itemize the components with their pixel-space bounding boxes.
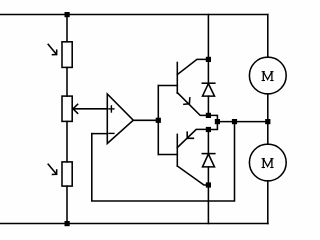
resistor R1 (variable, arrow)	[62, 42, 72, 68]
wire Q2 collector down to bottom rail	[207, 185, 209, 224]
wire top supply rail	[0, 14, 268, 16]
node collector Q2 / D2 anode	[206, 182, 211, 187]
diode D1	[202, 83, 215, 115]
motor M1	[249, 57, 286, 94]
node B output tee	[215, 119, 220, 124]
wire op-amp inverting input	[92, 133, 108, 135]
wire output split vertical	[157, 86, 159, 155]
transistor Q1 emitter with arrow	[177, 93, 208, 116]
wire feedback: minus input down, across, up to node C	[92, 122, 235, 201]
node op-amp output junction	[156, 118, 161, 123]
node A emitter Q1 / D1 anode	[206, 113, 211, 118]
wire top rail down to Q1 collector and diode D1	[207, 15, 209, 84]
wire top rail corner down to motor M1	[267, 15, 269, 58]
wire output to motors	[217, 121, 267, 123]
wire op-amp output	[133, 119, 158, 121]
transistor Q1 (NPN) base bar	[176, 63, 178, 94]
node collector Q1 / top rail drop	[206, 57, 211, 62]
node bottom rail / resistor chain junction	[65, 221, 70, 226]
resistor R3 (variable, arrow)	[62, 162, 72, 186]
arrow for R1	[48, 44, 57, 54]
potentiometer R2	[62, 96, 72, 121]
wire base of Q1	[158, 85, 177, 87]
op-amp U1	[107, 94, 133, 144]
wire base of Q2	[158, 154, 177, 156]
node top rail / resistor chain junction	[65, 12, 70, 17]
arrow for R3	[48, 164, 57, 174]
node D emitter Q2 / D2 cathode	[206, 127, 211, 132]
transistor Q2 collector	[177, 166, 208, 185]
wire M1 bottom to M2 top	[267, 94, 269, 144]
wire R2 to R3	[66, 121, 68, 161]
node C feedback tap	[232, 119, 237, 124]
transistor Q1 collector	[177, 59, 208, 74]
wire rail to R1	[66, 15, 68, 42]
diode D2	[202, 130, 215, 186]
transistor Q2 emitter with arrow	[177, 129, 208, 147]
wire node A to node B	[208, 115, 217, 129]
wire R3 to bottom rail	[66, 186, 68, 223]
op-amp minus label	[109, 132, 114, 134]
motor M2	[249, 144, 286, 181]
node motor junction	[265, 119, 270, 124]
wire bottom ground rail	[0, 223, 268, 225]
wire M2 bottom to bottom rail	[267, 181, 269, 224]
wiper arrow of R2	[73, 104, 107, 113]
wire R1 to R2	[66, 67, 68, 96]
transistor Q2 (PNP) base bar	[176, 134, 178, 166]
op-amp plus label	[109, 106, 114, 112]
